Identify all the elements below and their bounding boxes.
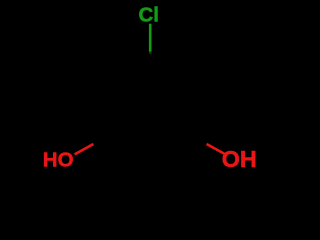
svg-text:OH: OH [222,146,257,172]
bond C5-Cl fade tail [149,52,151,54]
bond C1-O1 (O half, red) [75,144,94,154]
svg-text:HO: HO [43,149,74,172]
bond C3-O3 (O half, red) [207,144,226,154]
bond C5-Cl (Cl half, green) [149,24,152,52]
svg-text:Cl: Cl [139,4,160,27]
benzene ring C1-C6 (black bonds, invisible on black) [103,57,197,167]
